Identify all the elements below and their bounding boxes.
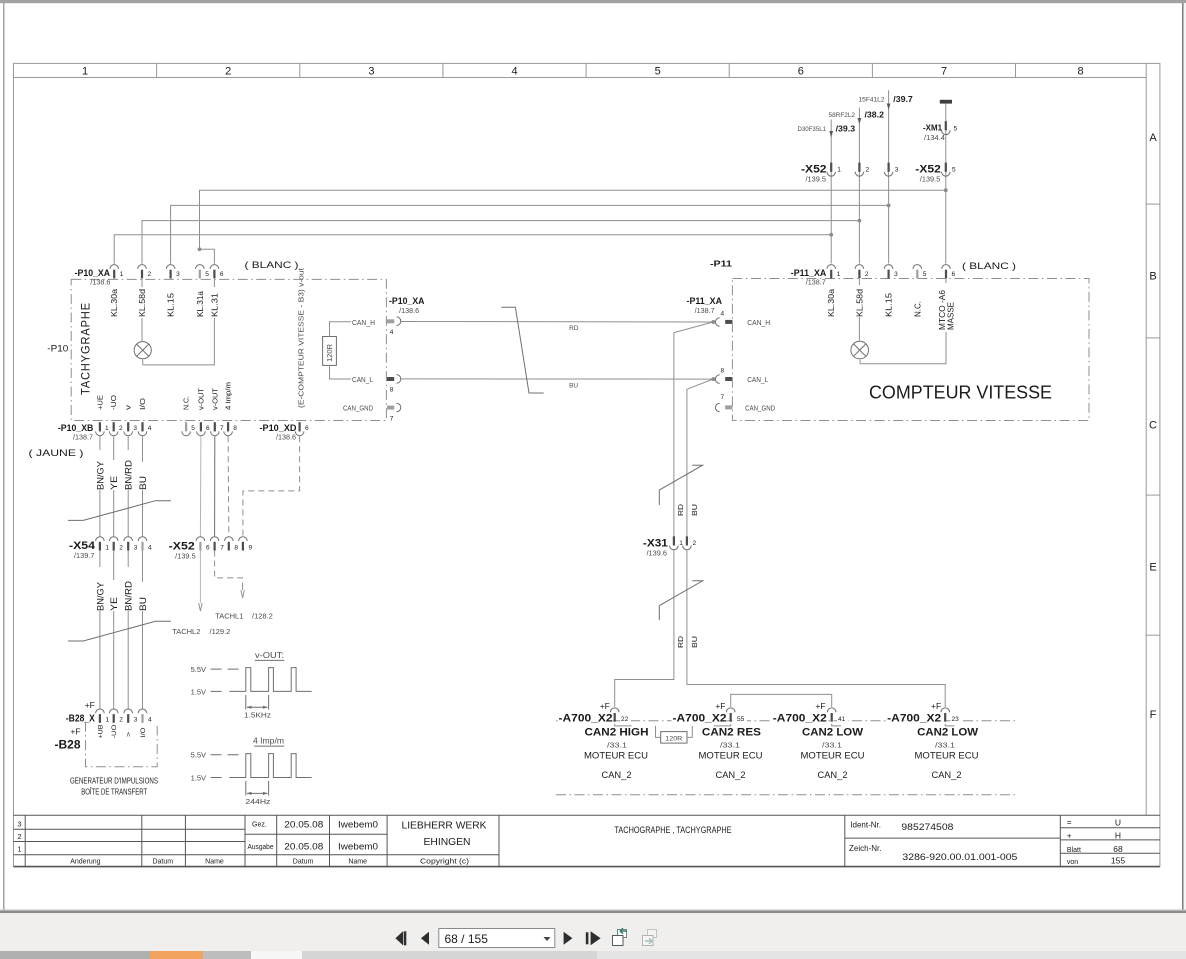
wire P10_XB pin7 to X52 <box>214 436 216 536</box>
lamp P11 <box>859 360 861 364</box>
svg-text:GENERATEUR D'IMPULSIONS: GENERATEUR D'IMPULSIONS <box>70 775 158 785</box>
svg-text:/129.2: /129.2 <box>210 627 231 636</box>
right ruler inner line <box>1145 63 1147 815</box>
svg-text:/139.6: /139.6 <box>647 551 668 558</box>
svg-text:6: 6 <box>206 545 210 552</box>
svg-text:>: > <box>126 732 133 737</box>
svg-text:/33.1: /33.1 <box>822 740 842 749</box>
svg-text:RD: RD <box>569 325 579 332</box>
connector -P10_XB pins 1-4 <box>96 422 105 436</box>
viewer top bar <box>0 0 1186 3</box>
svg-text:Iwebem0: Iwebem0 <box>338 842 378 853</box>
svg-text:Anderung: Anderung <box>70 858 100 865</box>
svg-text:6: 6 <box>220 271 224 278</box>
svg-text:1: 1 <box>679 540 683 547</box>
svg-text:MOTEUR ECU: MOTEUR ECU <box>699 751 763 761</box>
svg-text:-P10_XD: -P10_XD <box>260 423 297 434</box>
svg-text:-UO: -UO <box>111 725 118 739</box>
svg-text:/128.2: /128.2 <box>252 612 273 621</box>
svg-text:BU: BU <box>692 504 699 516</box>
waveform1 square wave <box>229 668 311 692</box>
arrow on D30F35L1 <box>829 131 833 137</box>
svg-text:120R: 120R <box>665 736 682 743</box>
svg-text:Gez.: Gez. <box>252 821 267 828</box>
TACHYGRAPHE box <box>71 279 386 420</box>
wire P11 pin2 to lamp <box>858 279 860 341</box>
svg-text:U: U <box>1115 817 1121 827</box>
row ruler ticks <box>1146 204 1160 635</box>
svg-text:-P11_XA: -P11_XA <box>791 268 827 279</box>
bus wire KL.30a y234 <box>114 235 831 264</box>
svg-text:/139.5: /139.5 <box>806 176 827 183</box>
svg-text:8: 8 <box>720 368 724 375</box>
svg-text:v-OUT:: v-OUT: <box>255 651 284 660</box>
toolbar last-page button <box>586 931 601 945</box>
svg-text:D30F35L1: D30F35L1 <box>798 126 827 133</box>
svg-text:5: 5 <box>205 271 209 278</box>
connector -X31 pins 1,2 <box>670 536 679 550</box>
svg-text:2: 2 <box>119 717 123 724</box>
svg-text:1: 1 <box>17 845 21 854</box>
P11_XA CAN_GND pin 7 <box>715 403 719 412</box>
connector -XM1 pin 5 <box>942 121 951 135</box>
wire 15F41L2 vertical <box>888 90 890 263</box>
svg-text:2: 2 <box>148 271 152 278</box>
svg-text:BU: BU <box>138 476 148 490</box>
svg-text:-A700_X2: -A700_X2 <box>673 713 727 725</box>
resistor 120R can <box>656 726 661 738</box>
svg-text:-P10_XB: -P10_XB <box>58 423 94 434</box>
column numbers 1-8 <box>82 66 1084 78</box>
svg-text:-P10_XA: -P10_XA <box>75 268 111 279</box>
svg-text:5: 5 <box>655 66 661 78</box>
connector -X52 pin 5 <box>942 163 951 177</box>
svg-text:/138.7: /138.7 <box>73 435 93 442</box>
svg-text:8: 8 <box>233 425 237 432</box>
svg-text:CAN_GND: CAN_GND <box>343 405 373 412</box>
P10_XA CAN_GND pin 7 <box>387 406 394 410</box>
connector -A700_X2 pin 55 <box>726 708 735 722</box>
junction dot bus/15F41L2 <box>887 204 891 208</box>
cable marker slash above X31 <box>659 465 702 505</box>
rotated signal labels P10_XA <box>110 287 220 318</box>
bus wire KL.58d y220 <box>142 221 859 264</box>
svg-text:E: E <box>1149 562 1156 574</box>
svg-text:I/O: I/O <box>140 728 147 738</box>
svg-text:2: 2 <box>225 66 231 78</box>
svg-text:1.5V: 1.5V <box>191 687 206 696</box>
waveform2 period dimension <box>245 781 247 796</box>
svg-text:3: 3 <box>176 271 180 278</box>
svg-text:244Hz: 244Hz <box>245 797 270 806</box>
svg-text:1: 1 <box>105 545 109 552</box>
svg-text:23: 23 <box>952 716 960 723</box>
rotated labels RD BU lower <box>678 636 699 648</box>
junction dot P11 CAN_H <box>711 320 715 324</box>
svg-text:/138.6: /138.6 <box>276 435 296 442</box>
svg-text:KL.15: KL.15 <box>885 292 894 317</box>
svg-text:N.C.: N.C. <box>184 396 191 410</box>
svg-text:8: 8 <box>390 387 394 394</box>
viewer bottom page edge <box>0 910 1186 911</box>
svg-text:68 / 155: 68 / 155 <box>445 932 489 946</box>
svg-text:1: 1 <box>105 717 109 724</box>
svg-text:5: 5 <box>923 271 927 278</box>
svg-text:-A700_X2: -A700_X2 <box>559 713 613 725</box>
top ruler inner line <box>14 77 1147 79</box>
svg-text:Name: Name <box>205 858 224 865</box>
svg-text:CAN_2: CAN_2 <box>818 770 848 780</box>
svg-text:+F: +F <box>815 701 825 711</box>
svg-text:CAN2 HIGH: CAN2 HIGH <box>585 727 649 739</box>
svg-text:1: 1 <box>82 66 88 78</box>
svg-text:+F: +F <box>715 701 725 711</box>
svg-text:+: + <box>1067 831 1072 840</box>
svg-text:CAN_2: CAN_2 <box>602 770 632 780</box>
wire BU riser to P11 pin8 <box>687 379 713 536</box>
svg-text:YE: YE <box>109 476 119 490</box>
junction dot pin5/6 <box>198 247 202 251</box>
svg-text:BU: BU <box>138 597 148 611</box>
connector -X54 pins 1-4 <box>96 537 105 551</box>
svg-text:CAN_L: CAN_L <box>352 377 373 384</box>
wires P10_XB 1-4 down to X54 <box>99 436 101 536</box>
svg-text:CAN_H: CAN_H <box>747 320 770 327</box>
svg-text:Copyright (c): Copyright (c) <box>420 859 469 866</box>
svg-text:RD: RD <box>678 504 685 516</box>
svg-text:/134.4: /134.4 <box>924 135 945 142</box>
svg-text:-P11: -P11 <box>710 259 732 269</box>
svg-text:( BLANC ): ( BLANC ) <box>962 261 1016 272</box>
waveform1 period dimension <box>245 695 247 710</box>
connector -P10_XA pins 1,2,3,5,6 <box>110 265 119 279</box>
svg-text:+F: +F <box>85 700 95 710</box>
svg-text:68: 68 <box>1113 844 1123 854</box>
svg-text:/138.6: /138.6 <box>90 280 110 287</box>
svg-text:7: 7 <box>720 394 724 401</box>
wire colour labels upper <box>95 450 148 490</box>
svg-text:CAN_2: CAN_2 <box>932 770 962 780</box>
svg-text:2: 2 <box>693 540 697 547</box>
svg-text:1.5KHz: 1.5KHz <box>244 711 271 720</box>
svg-text:4: 4 <box>148 425 152 432</box>
svg-text:20.05.08: 20.05.08 <box>284 819 323 830</box>
svg-text:TACHOGRAPHE , TACHYGRAPHE: TACHOGRAPHE , TACHYGRAPHE <box>615 825 732 835</box>
svg-text:Ident-Nr.: Ident-Nr. <box>850 821 881 830</box>
svg-text:-A700_X2: -A700_X2 <box>773 713 827 725</box>
svg-text:4 Imp/m: 4 Imp/m <box>226 382 233 410</box>
svg-text:4: 4 <box>148 545 152 552</box>
svg-text:EHINGEN: EHINGEN <box>424 836 471 848</box>
wire BU below X31 <box>687 550 945 707</box>
row letters A B C E F <box>1149 132 1157 721</box>
svg-text:-A700_X2: -A700_X2 <box>887 713 941 725</box>
cable marker slash upper-left <box>68 501 171 521</box>
A700 boundary dash-dot top <box>556 720 1016 722</box>
svg-text:B: B <box>1149 271 1156 283</box>
svg-text:/138.7: /138.7 <box>806 280 826 287</box>
svg-text:/33.1: /33.1 <box>607 740 627 749</box>
wire 58RF2L2 vertical <box>858 108 860 264</box>
connector -P11_XA pins 1,2,3,5,6 <box>827 265 836 279</box>
svg-text:3: 3 <box>133 425 137 432</box>
toolbar new-tab icon 1 <box>613 928 628 945</box>
svg-text:8: 8 <box>1077 66 1083 78</box>
svg-text:2: 2 <box>865 271 869 278</box>
cable marker slash lower-left <box>68 621 171 641</box>
svg-text:I/O: I/O <box>140 397 147 410</box>
svg-text:+F: +F <box>600 701 610 711</box>
title block outline <box>14 815 1160 866</box>
lamp P10 <box>142 360 144 365</box>
svg-text:+F: +F <box>70 727 80 737</box>
connector -A700_X2 pin 22 <box>610 708 619 722</box>
svg-text:CAN_GND: CAN_GND <box>745 405 775 412</box>
wire CAN2 RES to CAN2 LOW bus <box>731 694 832 707</box>
svg-text:CAN_2: CAN_2 <box>716 770 746 780</box>
svg-text:/139.7: /139.7 <box>74 553 95 560</box>
svg-text:5: 5 <box>191 425 195 432</box>
svg-text:CAN_L: CAN_L <box>747 377 768 384</box>
svg-text:/33.1: /33.1 <box>935 740 955 749</box>
svg-text:15F41L2: 15F41L2 <box>859 96 885 103</box>
svg-text:+F: +F <box>931 701 941 711</box>
svg-text:TACHL1: TACHL1 <box>215 612 243 621</box>
svg-text:1.5V: 1.5V <box>191 773 206 782</box>
svg-text:N.C.: N.C. <box>913 301 922 317</box>
svg-text:v-OUT: v-OUT <box>198 387 205 410</box>
connector -X52 pins 1,2,3 <box>827 163 836 177</box>
viewer toolbar background <box>0 913 1186 951</box>
svg-text:KL.30a: KL.30a <box>827 288 836 317</box>
P10_XA CAN_H pin 4 <box>387 319 394 323</box>
svg-text:Datum: Datum <box>293 858 314 865</box>
svg-text:155: 155 <box>1111 855 1125 865</box>
svg-text:von: von <box>1067 859 1078 866</box>
svg-text:Datum: Datum <box>152 858 173 865</box>
svg-text:BU: BU <box>692 636 699 648</box>
svg-text:v: v <box>126 404 133 410</box>
svg-text:-XM1: -XM1 <box>923 123 942 133</box>
junction dot P11 CAN_L <box>711 377 715 381</box>
wire BU CAN_L <box>401 378 713 380</box>
svg-text:1: 1 <box>120 271 124 278</box>
svg-text:CAN2 LOW: CAN2 LOW <box>802 727 864 739</box>
svg-text:3: 3 <box>895 167 899 174</box>
svg-text:-P10_XA: -P10_XA <box>389 296 425 307</box>
toolbar prev-page button <box>421 932 429 945</box>
svg-text:/33.1: /33.1 <box>720 740 740 749</box>
wires X54 down to B28_X <box>99 551 101 710</box>
connector -P10_XD pin 6 <box>295 422 304 436</box>
svg-text:KL.15: KL.15 <box>167 292 176 317</box>
svg-text:Name: Name <box>348 858 367 865</box>
svg-text:3: 3 <box>134 545 138 552</box>
svg-text:KL.31: KL.31 <box>210 292 219 317</box>
wire pin2 to lamp <box>141 279 143 341</box>
viewer left page edge <box>3 3 4 910</box>
svg-text:F: F <box>1150 709 1157 721</box>
B28 generator box <box>86 722 158 767</box>
svg-text:TACHYGRAPHE: TACHYGRAPHE <box>79 302 93 395</box>
svg-text:7: 7 <box>941 66 947 78</box>
svg-text:2: 2 <box>866 167 870 174</box>
rotated pin labels P10_XB <box>97 382 232 410</box>
P11_XA CAN_L pin 8 <box>715 375 719 384</box>
arrow on 15F41L2 <box>887 104 891 110</box>
toolbar next-page button <box>564 932 573 945</box>
svg-text:COMPTEUR VITESSE: COMPTEUR VITESSE <box>869 383 1052 403</box>
viewer right page edge <box>1182 3 1184 910</box>
svg-text:BN/GY: BN/GY <box>95 582 105 611</box>
svg-text:+UB: +UB <box>97 725 104 739</box>
svg-text:/38.2: /38.2 <box>865 110 885 119</box>
svg-text:KL.58d: KL.58d <box>138 289 147 317</box>
svg-text:H: H <box>1115 831 1121 841</box>
svg-text:( JAUNE ): ( JAUNE ) <box>29 448 84 459</box>
wire P10_XB pin6 through X52 to TACHL2 <box>199 436 202 536</box>
svg-text:MOTEUR ECU: MOTEUR ECU <box>584 751 648 761</box>
wire pin6 to lamp circuit <box>143 279 215 365</box>
svg-text:41: 41 <box>838 716 846 723</box>
svg-text:6: 6 <box>305 425 309 432</box>
svg-text:7: 7 <box>220 425 224 432</box>
svg-text:4: 4 <box>390 329 394 336</box>
svg-text:2: 2 <box>119 425 123 432</box>
svg-text:/39.3: /39.3 <box>836 125 856 134</box>
svg-text:-P11_XA: -P11_XA <box>687 296 723 307</box>
svg-text:BOÎTE DE TRANSFERT: BOÎTE DE TRANSFERT <box>81 786 147 796</box>
wire RD below X31 <box>615 550 674 707</box>
svg-text:5: 5 <box>954 126 958 133</box>
svg-text:=: = <box>1067 818 1072 827</box>
svg-text:-X54: -X54 <box>69 540 96 552</box>
svg-text:3: 3 <box>134 717 138 724</box>
svg-text:6: 6 <box>952 271 956 278</box>
connector -B28_X pins 1-4 <box>96 709 105 723</box>
svg-text:YE: YE <box>109 597 119 611</box>
svg-text:20.05.08: 20.05.08 <box>284 842 323 853</box>
svg-text:MOTEUR ECU: MOTEUR ECU <box>801 751 865 761</box>
cable marker slash below X31 <box>659 581 702 620</box>
svg-text:CAN_H: CAN_H <box>352 320 375 327</box>
P11_XA CAN_H pin 4 <box>715 318 719 327</box>
svg-text:1: 1 <box>837 167 841 174</box>
svg-text:BN/GY: BN/GY <box>95 461 105 490</box>
dashed wire P10_XD pin6 to X52.9 <box>243 436 300 536</box>
svg-text:BN/RD: BN/RD <box>124 580 134 611</box>
svg-text:4 Imp/m: 4 Imp/m <box>253 737 284 746</box>
svg-text:+UE: +UE <box>97 395 104 410</box>
svg-text:-B28: -B28 <box>55 739 82 751</box>
svg-text:985274508: 985274508 <box>901 822 953 833</box>
bus wire KL.31 y190 <box>200 190 946 249</box>
svg-text:Blatt: Blatt <box>1067 847 1081 854</box>
svg-text:1: 1 <box>105 425 109 432</box>
svg-text:8: 8 <box>234 545 238 552</box>
svg-text:9: 9 <box>249 545 253 552</box>
svg-text:6: 6 <box>798 66 804 78</box>
svg-text:Zeich-Nr.: Zeich-Nr. <box>849 844 881 853</box>
svg-text:C: C <box>1149 420 1157 432</box>
dashed wire P10_XB pin8 to X52.8 <box>227 436 230 536</box>
svg-text:2: 2 <box>17 832 21 841</box>
waveform1 level dashes <box>211 668 243 670</box>
svg-text:22: 22 <box>621 716 629 723</box>
viewer bottom strip <box>0 951 1186 959</box>
wire pin5-pin6 tie <box>200 249 215 263</box>
svg-text:55: 55 <box>737 716 745 723</box>
svg-text:58RF2L2: 58RF2L2 <box>829 112 856 119</box>
svg-text:-X52: -X52 <box>169 540 195 552</box>
svg-text:v-OUT: v-OUT <box>212 387 219 410</box>
svg-text:7: 7 <box>220 545 224 552</box>
wire RD CAN_H <box>401 321 713 324</box>
svg-text:KL.58d: KL.58d <box>855 289 864 317</box>
toolbar new-tab icon 2 (disabled) <box>643 930 657 946</box>
svg-text:4: 4 <box>720 311 724 318</box>
svg-text:3: 3 <box>17 820 21 829</box>
svg-text:LIEBHERR WERK: LIEBHERR WERK <box>402 819 487 831</box>
connector -A700_X2 pin 41 <box>827 708 836 722</box>
junction dot bus/58RF2L2 <box>858 219 862 223</box>
toolbar first-page button <box>395 931 406 945</box>
connector -A700_X2 pin 23 <box>941 708 950 722</box>
arrow TACHL2 <box>199 603 202 611</box>
svg-text:3286-920.00.01.001-005: 3286-920.00.01.001-005 <box>902 852 1017 863</box>
wire RD riser to P11 pin4 <box>674 322 713 536</box>
svg-text:-X52: -X52 <box>801 164 827 176</box>
junction dot bus/XM1 <box>944 188 948 192</box>
svg-text:TACHL2: TACHL2 <box>172 627 200 636</box>
svg-text:-X52: -X52 <box>915 164 941 176</box>
junction dot bus/D30F35L1 <box>829 233 833 237</box>
svg-text:2: 2 <box>119 545 123 552</box>
ground terminal bar above -XM1 <box>940 100 952 104</box>
svg-text:5.5V: 5.5V <box>191 751 206 760</box>
svg-text:5.5V: 5.5V <box>191 665 206 674</box>
svg-text:-UO: -UO <box>111 394 118 410</box>
svg-text:/138.7: /138.7 <box>695 308 715 315</box>
wire D30F35L1 vertical <box>830 120 832 264</box>
svg-text:-P10: -P10 <box>47 343 68 353</box>
120R bottom lead <box>330 365 352 379</box>
rotated signal labels P11_XA <box>827 283 956 332</box>
bus wire KL.15 y205 <box>171 205 889 263</box>
rotated labels RD BU upper <box>678 504 699 516</box>
toolbar page input box <box>439 929 555 948</box>
svg-text:( BLANC ): ( BLANC ) <box>245 260 299 271</box>
P10_XA CAN_L pin 8 <box>387 377 394 381</box>
120R top lead <box>330 322 352 337</box>
svg-text:3: 3 <box>368 66 374 78</box>
dashed wire X52.7 to TACHL1 <box>215 551 243 584</box>
waveform2 level dashes <box>211 754 243 756</box>
cable marker slash mid <box>501 307 544 393</box>
svg-text:3: 3 <box>894 271 898 278</box>
svg-text:6: 6 <box>206 425 210 432</box>
svg-text:CAN2 LOW: CAN2 LOW <box>917 727 979 739</box>
svg-text:Iwebem0: Iwebem0 <box>338 819 378 830</box>
A700 pin internal stubs <box>615 724 632 726</box>
wire colour labels lower <box>95 567 148 611</box>
connector -P10_XB pins 5-8 <box>182 422 191 436</box>
svg-text:A: A <box>1149 132 1157 144</box>
svg-text:7: 7 <box>390 415 394 422</box>
svg-text:5: 5 <box>952 167 956 174</box>
svg-text:Ausgabe: Ausgabe <box>248 844 274 851</box>
svg-text:-B28_X: -B28_X <box>66 714 95 725</box>
